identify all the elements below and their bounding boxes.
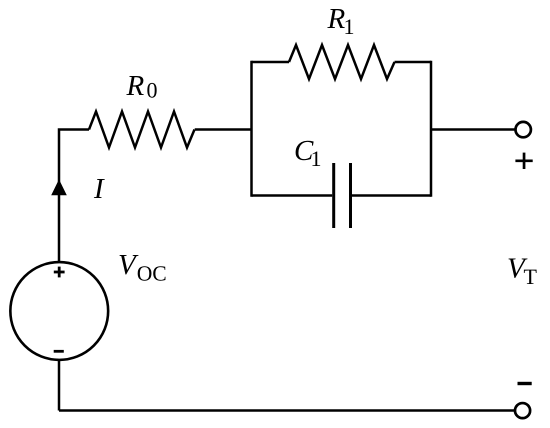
wire: bottom rail [59,409,515,412]
terminal + (top right) [516,122,531,137]
wire: top lead left of R1 [252,61,290,64]
label VT [509,259,537,284]
label I [94,179,105,198]
wire: R0 to parallel block [195,128,252,131]
label C1 [296,141,321,166]
wire: block to + terminal [431,128,515,131]
label R1 [327,9,353,34]
resistor R0 [89,112,195,148]
label R0 [126,76,156,98]
wire: parallel block right edge [430,61,433,197]
wire: parallel block left edge [250,61,253,197]
wire: top-left corner from R0 down to source [59,130,89,262]
plus sign inside source [54,267,65,278]
voltage source VOC circle [10,262,108,360]
capacitor C1 [334,163,351,228]
plus sign at output terminal [515,153,532,169]
terminal - (bottom right) [515,403,530,418]
wire: source bottom to bottom rail [58,360,61,410]
minus sign inside source [54,350,64,353]
wire: bottom lead left of C1 [252,194,333,197]
resistor R1 [289,45,395,79]
label VOC [120,255,166,281]
minus sign at output terminal [518,382,532,385]
wire: bottom lead right of C1 [352,194,431,197]
current arrow I [52,181,66,195]
wire: top lead right of R1 [395,61,432,64]
